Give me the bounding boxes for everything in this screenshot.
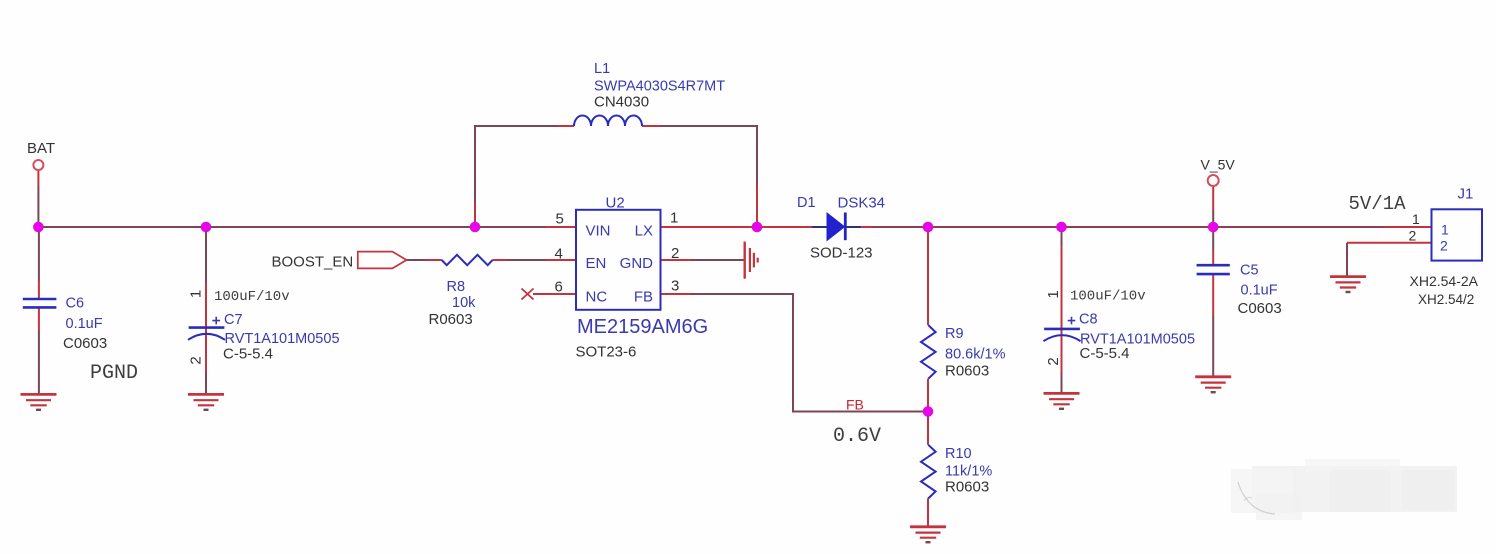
resistor R10 labels: [945, 446, 992, 495]
svg-text:L1: L1: [594, 61, 610, 77]
J1 inner pin names: [1440, 221, 1449, 253]
svg-text:0.1uF: 0.1uF: [1241, 283, 1278, 299]
svg-text:R9: R9: [945, 326, 964, 342]
svg-text:2: 2: [1440, 238, 1448, 254]
ground J1: [1330, 277, 1366, 292]
wire C6 lower: [38, 308, 40, 331]
wire U2 GND pin 2: [661, 259, 691, 261]
wire BAT stem: [37, 171, 39, 187]
U2 pin numbers: [555, 210, 680, 296]
capacitor C5 plates: [1197, 265, 1230, 274]
svg-text:4: 4: [555, 246, 563, 263]
svg-text:100uF/10v: 100uF/10v: [214, 289, 290, 305]
wire L1 left pin: [557, 125, 574, 127]
svg-text:1: 1: [188, 290, 205, 298]
wire L1 right leg lower red: [756, 185, 758, 227]
svg-text:100uF/10v: 100uF/10v: [1070, 289, 1146, 305]
svg-text:LX: LX: [635, 223, 653, 240]
port BOOST_EN: [358, 252, 407, 269]
wire J1 pin2 to ground: [1347, 242, 1432, 244]
svg-text:C-5-5.4: C-5-5.4: [1080, 345, 1130, 362]
svg-text:R0603: R0603: [429, 311, 473, 328]
svg-text:V_5V: V_5V: [1201, 157, 1236, 173]
capacitor C8 labels: [1070, 289, 1195, 363]
diode D1 labels: [797, 195, 885, 262]
svg-text:C5: C5: [1240, 263, 1259, 279]
svg-text:C-5-5.4: C-5-5.4: [223, 345, 273, 362]
wire J1 pin1 red stub: [1385, 226, 1432, 228]
wire main bus right segment: [872, 226, 1385, 228]
svg-text:SWPA4030S4R7MT: SWPA4030S4R7MT: [594, 79, 725, 95]
resistor R9 labels: [945, 326, 1006, 379]
svg-text:0.6V: 0.6V: [833, 425, 881, 448]
wire LX pin to node: [661, 226, 757, 228]
svg-text:2: 2: [1409, 227, 1417, 243]
wire L1 right pin: [642, 125, 660, 127]
svg-text:R0603: R0603: [945, 479, 989, 496]
capacitor C7 labels: [214, 289, 340, 362]
svg-text:SOD-123: SOD-123: [810, 245, 873, 262]
wire L1 loop right vertical: [660, 126, 757, 185]
svg-text:XH2.54/2: XH2.54/2: [1418, 292, 1474, 307]
capacitor C7 pin numbers: [188, 290, 205, 365]
wire V_5V stem: [1212, 186, 1214, 210]
inductor L1 coil: [574, 116, 642, 127]
junction node dots: [33, 222, 1218, 417]
wire R9 upper: [927, 227, 929, 325]
svg-text:1: 1: [1441, 221, 1449, 237]
resistor R10 zigzag: [921, 445, 936, 499]
J1 footprint labels: [1410, 273, 1479, 307]
wire L1 loop left vertical: [475, 126, 557, 203]
capacitor C6 plates: [23, 299, 57, 307]
resistor R8 labels: [429, 279, 477, 328]
BAT terminal circle: [33, 160, 43, 170]
U2 pin names: [586, 223, 654, 306]
svg-text:SOT23-6: SOT23-6: [576, 344, 637, 361]
wire main bus left segment (BAT to U2 VIN): [38, 226, 546, 228]
ground C5: [1195, 377, 1231, 392]
svg-text:2: 2: [188, 356, 205, 364]
svg-text:GND: GND: [620, 255, 654, 272]
wire R10 lower: [927, 498, 929, 526]
svg-text:2: 2: [671, 245, 679, 262]
svg-text:D1: D1: [797, 195, 816, 211]
wire C8 lower: [1061, 341, 1063, 372]
svg-text:J1: J1: [1458, 186, 1474, 203]
ground R10: [910, 527, 946, 542]
capacitor C8 pin numbers: [1045, 290, 1062, 365]
svg-text:C0603: C0603: [1238, 300, 1282, 317]
svg-text:C7: C7: [224, 312, 243, 328]
wire C7 lower: [205, 340, 207, 372]
wire C8 upper: [1061, 227, 1063, 245]
svg-text:R0603: R0603: [945, 362, 989, 379]
J1 outer pin numbers: [1409, 211, 1421, 243]
IC U2 body (ME2159AM6G regulator): [576, 210, 661, 310]
svg-text:FB: FB: [846, 397, 864, 413]
svg-text:R10: R10: [945, 446, 972, 462]
capacitor C6 labels: [63, 296, 107, 353]
capacitor C5 labels: [1238, 263, 1282, 318]
svg-text:C0603: C0603: [63, 335, 107, 352]
svg-text:PGND: PGND: [90, 362, 138, 385]
connector J1 body: [1432, 209, 1483, 260]
wire pin 5 VIN red stub: [546, 226, 576, 228]
diode D1: [827, 213, 845, 241]
svg-text:CN4030: CN4030: [594, 93, 649, 110]
svg-text:BAT: BAT: [27, 140, 55, 157]
svg-text:NC: NC: [586, 289, 608, 306]
svg-text:C6: C6: [66, 296, 85, 312]
svg-text:BOOST_EN: BOOST_EN: [272, 254, 354, 271]
svg-text:1: 1: [1412, 211, 1420, 227]
svg-text:80.6k/1%: 80.6k/1%: [945, 347, 1006, 363]
svg-text:10k: 10k: [452, 295, 476, 311]
svg-text:3: 3: [671, 278, 679, 295]
wire C6 upper: [38, 227, 40, 281]
ground (rotated) at U2 pin2: [745, 242, 758, 279]
ground C8: [1044, 393, 1080, 408]
wire node to diode anode: [757, 226, 812, 228]
svg-text:EN: EN: [586, 255, 607, 272]
wire C5 lower: [1212, 275, 1214, 316]
wire L1 left leg lower red: [474, 203, 476, 227]
svg-text:11k/1%: 11k/1%: [945, 464, 992, 480]
svg-text:R8: R8: [447, 279, 466, 295]
wire BOOST_EN row: [407, 259, 427, 261]
wire NC pin 6: [533, 293, 576, 295]
svg-text:1: 1: [1045, 290, 1062, 298]
svg-text:6: 6: [555, 279, 563, 296]
svg-text:2: 2: [1045, 357, 1062, 365]
power V_5V terminal: [1208, 175, 1219, 186]
ground C6: [21, 394, 57, 409]
resistor R8 zigzag: [442, 255, 493, 265]
capacitor C7 (electrolytic): [188, 317, 225, 340]
no-connect X: [522, 289, 534, 300]
svg-text:5: 5: [556, 211, 564, 228]
wire U2 FB pin 3 routing: [661, 293, 691, 295]
ground C7: [188, 394, 224, 409]
svg-text:U2: U2: [606, 194, 625, 211]
svg-text:1: 1: [670, 210, 678, 227]
inductor L1 labels: [594, 61, 725, 110]
resistor R9 zigzag: [921, 325, 936, 379]
wire C7 upper: [205, 227, 207, 283]
wire R10 upper: [927, 412, 929, 445]
svg-text:DSK34: DSK34: [838, 195, 886, 212]
wire diode cathode stub: [846, 226, 861, 228]
svg-text:VIN: VIN: [586, 223, 611, 240]
wire R9 lower: [927, 379, 929, 412]
svg-text:XH2.54-2A: XH2.54-2A: [1410, 273, 1479, 289]
watermark blocks (decorative): [1231, 459, 1457, 520]
svg-text:5V/1A: 5V/1A: [1349, 193, 1407, 215]
svg-text:0.1uF: 0.1uF: [66, 316, 103, 332]
wire C5 upper: [1212, 227, 1214, 250]
svg-text:C8: C8: [1079, 311, 1098, 327]
capacitor C8 (electrolytic): [1044, 317, 1081, 341]
svg-text:ME2159AM6G: ME2159AM6G: [577, 316, 708, 338]
svg-text:FB: FB: [634, 289, 653, 306]
